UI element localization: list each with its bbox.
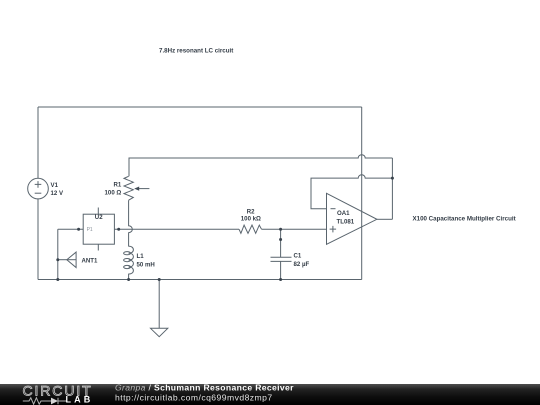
node L1 bottom bbox=[127, 278, 130, 281]
svg-text:50 mH: 50 mH bbox=[137, 261, 155, 268]
wire R1 bottom to L1 top (hop over signal wire) bbox=[129, 200, 133, 246]
svg-text:V1: V1 bbox=[51, 182, 59, 189]
svg-text:Granpa / Schumann Resonance Re: Granpa / Schumann Resonance Receiver bbox=[115, 383, 294, 393]
wire feedback vertical bbox=[391, 158, 393, 219]
capacitor C1 bbox=[271, 257, 292, 261]
component box U2 bbox=[83, 208, 114, 251]
wire top rail bbox=[38, 106, 362, 108]
svg-text:12 V: 12 V bbox=[51, 190, 64, 197]
wire antenna rail bbox=[57, 229, 59, 279]
wire right rail bbox=[361, 107, 363, 280]
svg-text:C1: C1 bbox=[294, 252, 302, 259]
node ground tap bbox=[158, 278, 161, 281]
resistor R2 bbox=[239, 225, 262, 233]
svg-text:TL081: TL081 bbox=[337, 219, 355, 226]
svg-text:82 µF: 82 µF bbox=[294, 261, 310, 268]
ground bbox=[151, 328, 168, 336]
svg-text:LAB: LAB bbox=[66, 395, 94, 405]
wire L1 bottom to rail bbox=[128, 274, 130, 280]
node U2 left pin bbox=[77, 228, 80, 231]
svg-text:100 Ω: 100 Ω bbox=[105, 190, 122, 197]
wire U2 right pin to R2 bbox=[114, 228, 239, 230]
wire U2 left pin bbox=[58, 228, 83, 230]
svg-text:U2: U2 bbox=[95, 214, 103, 221]
svg-text:R2: R2 bbox=[247, 208, 255, 215]
wire left rail lower bbox=[37, 199, 39, 280]
wire C1 bottom lead bbox=[280, 261, 282, 279]
node feedback join bbox=[391, 177, 394, 180]
voltage source V1 bbox=[28, 178, 49, 199]
svg-text:7.8Hz resonant LC circuit: 7.8Hz resonant LC circuit bbox=[159, 47, 233, 54]
node C1 top bbox=[279, 228, 282, 231]
svg-text:P1: P1 bbox=[87, 227, 93, 233]
wire R2 to op-amp plus input bbox=[262, 228, 327, 230]
antenna ANT1 bbox=[58, 252, 76, 267]
node C1 mid bbox=[279, 238, 282, 241]
wire R1 top to feedback corner (hop over right rail) bbox=[129, 155, 392, 177]
svg-text:ANT1: ANT1 bbox=[82, 258, 99, 265]
wire ground stem bbox=[158, 280, 160, 329]
node C1 bottom bbox=[279, 278, 282, 281]
node U2 right pin bbox=[117, 228, 120, 231]
footer bar bbox=[0, 384, 540, 405]
svg-text:L1: L1 bbox=[137, 253, 145, 260]
potentiometer R1 bbox=[124, 176, 149, 200]
inductor L1 bbox=[124, 246, 134, 274]
wire op-amp output bbox=[377, 218, 393, 220]
svg-text:100 kΩ: 100 kΩ bbox=[241, 216, 261, 223]
logo squiggle bbox=[23, 398, 67, 404]
node ANT rail bottom bbox=[56, 278, 59, 281]
wire op-amp minus input feedback bbox=[311, 175, 392, 209]
wire C1 top lead bbox=[280, 229, 282, 257]
wire left rail upper bbox=[37, 107, 39, 178]
svg-text:http://circuitlab.com/cq699mvd: http://circuitlab.com/cq699mvd8zmp7 bbox=[115, 392, 273, 402]
wire bottom rail bbox=[38, 279, 362, 281]
op-amp OA1 bbox=[327, 193, 377, 244]
svg-text:X100 Capacitance Multiplier Ci: X100 Capacitance Multiplier Circuit bbox=[413, 216, 516, 223]
svg-text:R1: R1 bbox=[114, 181, 122, 188]
junction dots bbox=[56, 177, 394, 281]
node ANT1 tap bbox=[56, 258, 59, 261]
svg-text:OA1: OA1 bbox=[337, 210, 350, 217]
